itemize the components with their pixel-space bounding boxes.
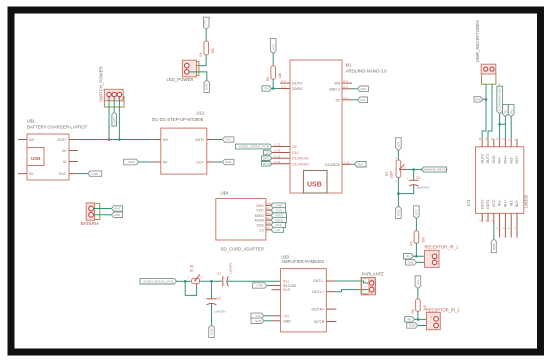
- wire switch pin2 stub to VBAT flag: [113, 97, 115, 112]
- svg-text:M1: M1: [346, 62, 353, 67]
- svg-text:IN+: IN+: [29, 138, 35, 142]
- junction at switch pin3: [118, 138, 121, 141]
- wire UNIR pin1 to comparator: [482, 84, 486, 139]
- connector RECEPTOR_IR_1: [425, 244, 459, 267]
- pin R2 wiper stub: [196, 284, 198, 287]
- pin U$4 MOSI: [266, 219, 271, 221]
- wire VCC to R5: [415, 219, 417, 231]
- svg-text:AMPLIFIER-PAM8403: AMPLIFIER-PAM8403: [281, 259, 324, 264]
- wire IR1 flag down: [504, 117, 506, 125]
- svg-text:10k: 10k: [211, 48, 215, 54]
- wire R4 to LED_POWER pin1: [189, 55, 206, 66]
- wire OUT.L- to PARLANTE pin1: [336, 281, 369, 283]
- capacitor C1 10uF/50V polarized: [406, 176, 430, 190]
- svg-text:IR2: IR2: [509, 109, 513, 114]
- svg-text:10uF/50V: 10uF/50V: [416, 185, 430, 189]
- wire COMMAND flag down to node: [499, 114, 501, 125]
- svg-text:OUT.L+: OUT.L+: [312, 290, 324, 294]
- svg-text:R4: R4: [199, 52, 203, 56]
- pin IC1 top 8: [510, 139, 512, 147]
- svg-text:CS: CS: [266, 226, 270, 230]
- wire IR1 tag to node: [413, 255, 416, 257]
- wire R1 bottom down: [397, 178, 399, 207]
- wire GND to RECEPTOR_IR_1 pin2: [417, 261, 434, 263]
- pin IC1 top 11: [504, 139, 506, 147]
- svg-text:U$1: U$1: [27, 118, 35, 123]
- pin M1 D13/SCK with number J1.12: [342, 163, 352, 165]
- wire command node down to IC1 pin: [499, 124, 501, 139]
- svg-text:VCC: VCC: [271, 43, 275, 50]
- pin U$3 IN.R: [272, 289, 281, 291]
- wire U$1 OUT- to GND: [78, 173, 88, 175]
- wire R1 wiper to COMMAND node: [407, 169, 422, 171]
- wire R2 wiper loop: [185, 281, 196, 295]
- wire IR2 flag down to comparator: [510, 117, 512, 139]
- svg-text:GND: GND: [276, 204, 284, 208]
- svg-text:1uF/50V: 1uF/50V: [214, 310, 227, 314]
- wire OUT.L+ to PARLANTE pin2: [336, 290, 369, 292]
- svg-text:ARDUINO-NANO-3.0: ARDUINO-NANO-3.0: [346, 69, 388, 74]
- svg-text:D13/SCK: D13/SCK: [325, 163, 341, 167]
- net flag IR2: [405, 317, 415, 322]
- svg-text:IN.R: IN.R: [283, 288, 291, 292]
- svg-text:VCC: VCC: [492, 199, 496, 207]
- pin U$1 OUT+: [69, 139, 78, 141]
- capacitor C7 1uF/50V: [217, 261, 233, 286]
- junction IR1 node: [415, 255, 418, 258]
- pin U$3 OUT.L+: [326, 291, 336, 293]
- svg-text:VBAT: VBAT: [113, 117, 117, 125]
- trimmer R2 1K: [188, 264, 203, 283]
- wire C7 to U$3 IN.L: [227, 280, 280, 282]
- svg-text:GND: GND: [91, 172, 99, 176]
- net flag VBAT at battery: [111, 206, 122, 211]
- wire M1 D13/SCK to SCK: [352, 163, 355, 165]
- svg-text:C2: C2: [217, 297, 221, 301]
- USB block of M1: [304, 171, 328, 194]
- svg-text:IR1: IR1: [504, 109, 508, 114]
- wire command node to comparator pin: [500, 124, 506, 139]
- svg-text:J1.2: J1.2: [281, 85, 286, 89]
- pin M1 D9 with number J1.13: [272, 146, 290, 148]
- pin IC1 bottom 5: [504, 213, 506, 237]
- wire C2 to GND: [211, 303, 213, 325]
- svg-text:USB: USB: [307, 182, 322, 189]
- wire VCC to R4: [205, 29, 207, 41]
- supply GND flag at U12 IN-: [124, 159, 139, 165]
- wire M1 GND.2 to GND: [352, 88, 358, 90]
- wire U12 OUT+ to VCC: [215, 139, 222, 141]
- pin U$3 +5V: [272, 315, 281, 317]
- wire node to RECEPTOR_IR_1 pin1: [416, 255, 433, 257]
- connector SWITCH_POWER: [99, 66, 125, 107]
- wire R6 to IR2 node: [417, 311, 419, 319]
- net flag VBAT on switch wire: [112, 112, 117, 126]
- svg-text:MOSI: MOSI: [263, 162, 271, 166]
- svg-text:D11/MOSI: D11/MOSI: [292, 157, 309, 161]
- svg-text:VIN: VIN: [334, 82, 340, 86]
- svg-text:MISO: MISO: [275, 214, 283, 218]
- svg-text:OUT1: OUT1: [486, 200, 490, 210]
- svg-text:C1: C1: [416, 176, 420, 180]
- pin M1 5V with number J1.4: [342, 99, 352, 101]
- net flag MOSI at U$4: [271, 218, 287, 223]
- svg-text:R3: R3: [266, 77, 270, 81]
- connector BATERIA: [81, 203, 100, 226]
- svg-text:U12: U12: [197, 111, 205, 116]
- wire VCC to +5V: [264, 315, 272, 317]
- svg-text:J1.12: J1.12: [343, 160, 350, 164]
- svg-text:J1.4: J1.4: [343, 96, 348, 100]
- svg-text:VCC: VCC: [416, 278, 420, 285]
- pin IC1 bottom 2: [487, 213, 489, 222]
- svg-text:GND: GND: [205, 83, 209, 91]
- pin U$3 IN.COM: [272, 285, 281, 287]
- supply GND flag at U$3 GND: [251, 318, 264, 323]
- svg-text:5V: 5V: [336, 98, 341, 102]
- svg-text:MISO: MISO: [263, 156, 271, 160]
- svg-text:B+: B+: [63, 149, 68, 153]
- svg-text:VCC: VCC: [359, 98, 366, 102]
- svg-text:GND: GND: [409, 324, 417, 328]
- svg-text:J1.15: J1.15: [274, 154, 281, 158]
- junction at R2 wiper loop: [184, 280, 187, 283]
- connector RECEPTOR_IR_2: [426, 308, 460, 330]
- wire C1 to pot-bottom GND rail: [398, 184, 413, 193]
- wire COMMAND node to C1: [413, 170, 415, 181]
- wire VCC to R6: [417, 289, 419, 299]
- svg-text:DC-DC-STEP-UP-MT3608: DC-DC-STEP-UP-MT3608: [152, 117, 204, 122]
- supply VCC flag above R6: [415, 276, 421, 289]
- pin U$4 CS: [266, 229, 271, 231]
- net flag CS at D10: [264, 150, 273, 155]
- wire GND to U$3 GND: [264, 320, 272, 322]
- svg-text:R6: R6: [411, 309, 415, 313]
- pin IC1 top 9: [516, 139, 518, 147]
- svg-text:10k: 10k: [278, 72, 282, 78]
- svg-text:CS: CS: [259, 228, 265, 232]
- pin R1 wiper: [401, 169, 407, 171]
- svg-text:J1.14: J1.14: [274, 149, 281, 153]
- net flag MISO at U$4: [271, 213, 287, 218]
- pin U12 IN+: [153, 139, 161, 141]
- supply GND flag at U$1 OUT-: [88, 171, 102, 176]
- pin IC1 bottom 1: [481, 213, 483, 222]
- pin U$3 OUT.R+: [326, 308, 336, 310]
- svg-text:J1.1: J1.1: [281, 79, 286, 83]
- svg-text:10K: 10K: [421, 236, 425, 243]
- svg-text:RECEPTOR_IR_2: RECEPTOR_IR_2: [426, 308, 460, 313]
- svg-text:SWITCH_POWER: SWITCH_POWER: [99, 66, 104, 102]
- junction COMMAND node: [412, 168, 415, 171]
- wire battery pin2: [94, 214, 112, 216]
- net flag RX: [262, 86, 271, 91]
- net flag IR2 vertical: [508, 105, 514, 117]
- pin IC1 top 10: [499, 139, 501, 147]
- pin U$3 OUT.R: [326, 321, 336, 323]
- connector PARLANTE: [361, 271, 384, 295]
- svg-text:VCC: VCC: [225, 138, 232, 142]
- pin U12 IN-: [153, 161, 161, 163]
- wire RX to M1 D0/RX: [271, 88, 280, 90]
- net flag CS at U$4: [271, 227, 284, 232]
- svg-text:D12/MISO: D12/MISO: [292, 162, 309, 166]
- svg-text:GND: GND: [256, 204, 264, 208]
- wire IR2 tag to node: [414, 318, 418, 320]
- svg-text:IN3+: IN3+: [515, 156, 519, 164]
- resistor R4 10k: [199, 41, 215, 57]
- svg-text:MOSI: MOSI: [275, 218, 283, 222]
- svg-text:UNIR_RECEPTORES: UNIR_RECEPTORES: [475, 20, 480, 63]
- svg-text:IN+: IN+: [163, 138, 169, 142]
- potentiometer R1 100K: [385, 156, 406, 184]
- wire switch pin1 down to VBAT rail: [108, 97, 110, 140]
- svg-text:IN3-: IN3-: [509, 156, 513, 164]
- junction at GND flag: [485, 98, 488, 101]
- junction RX node: [272, 87, 275, 90]
- pin U$1 IN-: [18, 173, 27, 175]
- supply GND flag at M1 GND.2: [358, 86, 369, 92]
- supply VCC flag at M1 5V: [358, 97, 368, 103]
- pin M1 D11/MOSI with number J1.15: [272, 157, 290, 159]
- pin U$1 B-: [69, 161, 78, 163]
- pin U12 OUT+: [207, 139, 215, 141]
- wire GND to U12 IN-: [138, 161, 153, 163]
- svg-text:U$4: U$4: [221, 191, 229, 196]
- pin U$4 SCK: [266, 224, 271, 226]
- pin M1 D12/MISO with number J1.16: [272, 163, 290, 165]
- pin IC1 bottom 7: [516, 213, 518, 237]
- wire GND flag stub: [483, 98, 486, 100]
- svg-text:D1/TX: D1/TX: [292, 82, 303, 86]
- wire switch pin3 down to VBAT rail: [118, 97, 120, 140]
- svg-text:IR1: IR1: [406, 255, 411, 259]
- IC U$4 SD_CARD_ADAPTER: [216, 191, 266, 252]
- wire node to RECEPTOR_IR_2 pin1: [418, 318, 435, 320]
- pin M1 D1/TX with number J1.1: [280, 82, 290, 84]
- net flag IR1: [404, 254, 414, 259]
- svg-text:MOSI: MOSI: [255, 219, 264, 223]
- wire M1 5V to VCC: [352, 99, 358, 101]
- svg-text:D10: D10: [292, 151, 299, 155]
- wire C2 branch down: [211, 281, 213, 299]
- svg-text:VCC: VCC: [266, 206, 272, 210]
- svg-text:SCK: SCK: [357, 163, 363, 167]
- svg-text:VCC: VCC: [415, 208, 419, 215]
- wire U12 OUT- to GND: [215, 161, 222, 163]
- svg-text:IC1: IC1: [466, 199, 471, 206]
- net flag IR1 vertical: [503, 105, 509, 117]
- svg-text:IN2-: IN2-: [509, 199, 513, 207]
- svg-text:IN-: IN-: [29, 172, 35, 176]
- connector LED_POWER: [167, 60, 199, 82]
- svg-text:1uF/50V: 1uF/50V: [229, 261, 233, 274]
- supply GND flag below R1: [396, 206, 402, 218]
- svg-text:R2: R2: [190, 264, 194, 268]
- svg-text:CS: CS: [276, 228, 280, 232]
- wire VCC to R3: [272, 54, 274, 66]
- IC U$3 AMPLIFIER-PAM8403: [281, 254, 327, 332]
- svg-text:COMMAND_RECEP: COMMAND_RECEP: [498, 83, 502, 111]
- svg-text:OUT.R+: OUT.R+: [312, 308, 325, 312]
- pin IC1 top 14: [481, 139, 483, 147]
- IC U12 DC-DC-STEP-UP-MT3608: [152, 111, 207, 175]
- pin U$3 GND: [272, 320, 281, 322]
- net flag SCK at M1 D13/SCK: [355, 162, 367, 167]
- svg-text:J1.1: J1.1: [343, 79, 348, 83]
- svg-text:SCK: SCK: [276, 223, 282, 227]
- wire GND to RECEPTOR_IR_2 pin2: [418, 325, 435, 327]
- pin IC1 top 12: [493, 139, 495, 147]
- pin IC1 bottom 4: [499, 213, 501, 237]
- svg-text:GND: GND: [360, 87, 368, 91]
- pin M1 GND.2 with number J1.2: [342, 88, 352, 90]
- net flag SCK at U$4: [271, 223, 286, 228]
- pin IC1 bottom 3 VCC: [493, 213, 495, 222]
- supply VCC flag at U$3 +5V: [251, 313, 264, 318]
- svg-text:OUT3: OUT3: [480, 154, 484, 164]
- wire R2 to C7 and C2 node: [200, 280, 222, 282]
- net flag GND at U$4: [271, 203, 286, 208]
- wire R5 to IR1 node: [415, 243, 417, 256]
- junction at C2 branch: [210, 280, 213, 283]
- pin M1 VIN with number J1.1: [342, 82, 352, 84]
- svg-text:CS: CS: [266, 151, 270, 155]
- pin U$4 GND: [266, 204, 271, 206]
- svg-text:VBAT: VBAT: [113, 207, 121, 211]
- svg-text:GND: GND: [492, 155, 496, 163]
- IC1 LM339: [466, 147, 529, 214]
- connector UNIR_RECEPTORES: [475, 20, 496, 84]
- svg-text:VCC: VCC: [276, 208, 283, 212]
- svg-text:OUT.R: OUT.R: [314, 320, 325, 324]
- svg-text:OUT-: OUT-: [58, 172, 67, 176]
- pin M1 D10 with number J1.14: [272, 152, 290, 154]
- supply GND flag on receiver wire: [474, 97, 483, 102]
- svg-text:GND: GND: [210, 328, 214, 336]
- svg-text:USB: USB: [31, 156, 40, 161]
- svg-text:GND: GND: [255, 319, 263, 323]
- svg-text:GND: GND: [114, 213, 122, 217]
- pin U$4 VCC: [266, 209, 271, 211]
- svg-text:OUT2: OUT2: [480, 200, 484, 210]
- svg-text:AUDIO_SIGNAL_PCB: AUDIO_SIGNAL_PCB: [143, 280, 173, 284]
- svg-text:IN-: IN-: [163, 161, 169, 165]
- svg-text:GND: GND: [283, 319, 291, 323]
- wire LED_POWER pin2 to GND: [189, 72, 207, 80]
- svg-text:J1.13: J1.13: [274, 143, 281, 147]
- svg-text:GND: GND: [475, 98, 483, 102]
- resistor R6 10K: [411, 299, 427, 314]
- svg-text:OUT+: OUT+: [195, 138, 205, 142]
- supply GND flag below C2: [209, 325, 215, 337]
- supply GND flag at RECEPTOR_IR_2: [407, 323, 418, 328]
- svg-text:VCC: VCC: [397, 140, 401, 147]
- svg-text:OUT4: OUT4: [486, 154, 490, 164]
- svg-text:COMMAND_RECEP: COMMAND_RECEP: [420, 168, 448, 172]
- wire net VBAT: U$1 OUT+ to U12 IN+: [78, 139, 153, 141]
- svg-text:OUT.L-: OUT.L-: [313, 279, 325, 283]
- wire battery pin1: [94, 208, 112, 210]
- svg-text:GND: GND: [256, 284, 264, 288]
- wire GND to IN.COM: [267, 285, 272, 287]
- svg-text:PARLANTE: PARLANTE: [362, 271, 384, 276]
- junction at GND rail: [397, 192, 400, 195]
- pin IC1 bottom 6: [510, 213, 512, 237]
- svg-text:IN4+: IN4+: [504, 156, 508, 164]
- net flag MOSI at D12/MISO: [262, 162, 273, 167]
- junction on command wire: [498, 123, 501, 126]
- svg-text:J1.2: J1.2: [343, 85, 348, 89]
- svg-text:VCC: VCC: [256, 209, 264, 213]
- net flag AUDIO_SIGNAL_PCB at D9: [236, 144, 273, 149]
- supply VCC flag above R1: [396, 138, 402, 151]
- pin U12 OUT-: [207, 161, 215, 163]
- supply VCC flag above R3: [270, 39, 276, 54]
- svg-text:IN1+: IN1+: [504, 200, 508, 208]
- wire IC1 VCC pin to GND flag: [493, 222, 495, 239]
- junction IR2 node: [417, 318, 420, 321]
- svg-text:SCK: SCK: [266, 221, 272, 225]
- svg-text:GND: GND: [128, 160, 136, 164]
- svg-text:IN4-: IN4-: [498, 156, 502, 164]
- svg-text:IR2: IR2: [407, 318, 412, 322]
- svg-text:SCK: SCK: [257, 224, 265, 228]
- pin U$1 B+: [69, 150, 78, 152]
- svg-text:LED_POWER: LED_POWER: [167, 77, 194, 82]
- supply GND flag below IC1: [491, 239, 496, 253]
- pin U$3 OUT.L-: [326, 280, 336, 282]
- supply GND flag at U$3 IN.COM: [253, 283, 268, 288]
- supply VCC flag above LED resistor: [203, 17, 209, 29]
- svg-text:100K: 100K: [389, 170, 393, 178]
- svg-text:VCC: VCC: [203, 19, 207, 26]
- svg-text:VCC: VCC: [255, 314, 262, 318]
- net flag VCC at U$4: [271, 208, 286, 213]
- svg-text:C7: C7: [217, 272, 221, 276]
- IC M1 ARDUINO-NANO-3.0: [290, 60, 387, 193]
- svg-text:GND.2: GND.2: [329, 87, 340, 91]
- capacitor C2 1uF/50V polarized: [204, 297, 227, 314]
- wire UNIR pin2 to comparator: [488, 84, 492, 139]
- svg-text:D0/RX: D0/RX: [292, 87, 303, 91]
- supply GND flag below LED_POWER: [204, 80, 210, 92]
- svg-text:D9: D9: [292, 145, 297, 149]
- supply VCC flag above R5: [414, 206, 420, 219]
- svg-text:GND: GND: [225, 160, 233, 164]
- supply GND flag at RECEPTOR_IR_1: [406, 260, 417, 265]
- supply GND flag at U12 OUT-: [222, 159, 234, 164]
- svg-text:RECEPTOR_IR_1: RECEPTOR_IR_1: [425, 244, 459, 249]
- net flag COMMAND_RECEP: [420, 167, 448, 172]
- svg-text:BATTERY-CHARGER-LI-PROT: BATTERY-CHARGER-LI-PROT: [27, 125, 88, 130]
- svg-text:RX: RX: [265, 87, 269, 91]
- svg-text:MISO: MISO: [255, 214, 264, 218]
- net flag AUDIO_SIGNAL_PCB at amplifier input: [140, 279, 177, 284]
- supply GND flag at battery: [111, 212, 122, 217]
- svg-text:R5: R5: [409, 241, 413, 245]
- pin U$1 IN+: [18, 139, 27, 141]
- svg-text:OUT-: OUT-: [196, 161, 205, 165]
- supply VCC flag at U12 OUT+: [222, 137, 234, 142]
- svg-text:IN2+: IN2+: [515, 200, 519, 208]
- pin M1 D0/RX with number J1.2: [280, 88, 290, 90]
- junction at switch pin2: [108, 138, 111, 141]
- IC U$1 BATTERY-CHARGER-LI-PROT: [27, 118, 88, 180]
- svg-text:+5V: +5V: [283, 314, 290, 318]
- svg-text:SD_CARD_ADAPTER: SD_CARD_ADAPTER: [221, 247, 264, 252]
- svg-text:OUT+: OUT+: [57, 138, 67, 142]
